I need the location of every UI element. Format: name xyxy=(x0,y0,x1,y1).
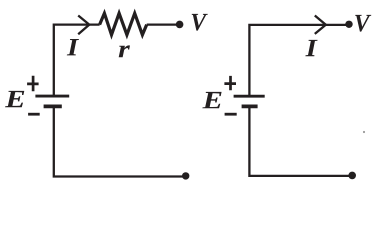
wire left bottom (battery - terminal down and right to bottom node) xyxy=(54,106,186,176)
plus sign left xyxy=(27,76,38,92)
node dot top right xyxy=(345,21,352,28)
label V right xyxy=(355,15,371,32)
label E left xyxy=(5,91,24,107)
node dot bottom right xyxy=(348,172,356,180)
node dot bottom left xyxy=(182,172,189,179)
current arrow I left xyxy=(78,16,89,35)
minus sign left xyxy=(28,113,40,116)
wire resistor to node V left xyxy=(147,23,180,25)
label I right xyxy=(305,40,317,56)
battery E right: short plate (-) xyxy=(242,105,258,109)
wire right bottom (battery - terminal down and right to bottom node) xyxy=(249,106,352,175)
current arrow I right xyxy=(315,16,326,34)
wire left top (from battery + terminal up and right to resistor) xyxy=(54,25,100,97)
battery E left: long plate (+) xyxy=(35,95,69,98)
label E right xyxy=(202,92,221,108)
node dot top left xyxy=(176,21,184,29)
label V left xyxy=(192,14,208,31)
label I left xyxy=(67,39,79,55)
battery E left: short plate (-) xyxy=(44,105,62,109)
label r xyxy=(119,45,130,57)
minus sign right xyxy=(225,113,237,116)
stray speck xyxy=(363,131,365,133)
resistor r xyxy=(100,13,147,35)
battery E right: long plate (+) xyxy=(234,95,265,98)
wire right top (from battery + terminal up and right to node V) xyxy=(249,25,349,96)
plus sign right xyxy=(224,76,236,90)
